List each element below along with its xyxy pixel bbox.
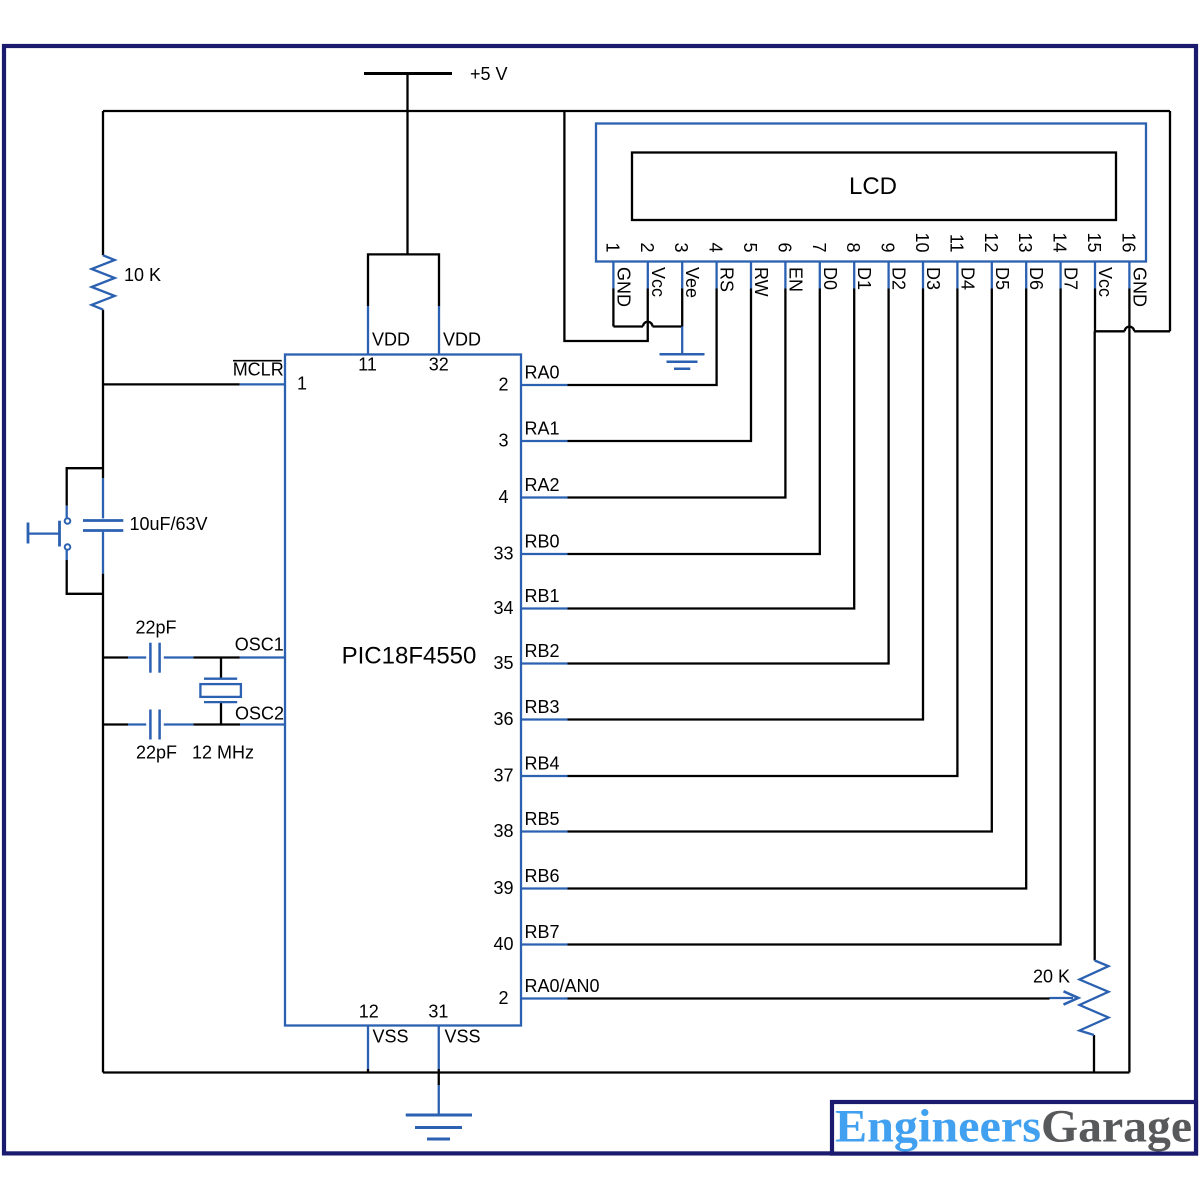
svg-text:Vee: Vee — [682, 267, 702, 298]
svg-text:PIC18F4550: PIC18F4550 — [342, 642, 477, 669]
svg-text:16: 16 — [1118, 232, 1138, 252]
svg-text:8: 8 — [843, 242, 863, 252]
svg-text:10 K: 10 K — [124, 265, 161, 285]
svg-text:22pF: 22pF — [136, 618, 177, 638]
svg-text:Vcc: Vcc — [648, 267, 668, 297]
svg-text:RA1: RA1 — [525, 419, 560, 439]
svg-text:+5 V: +5 V — [470, 64, 508, 84]
svg-text:RA0: RA0 — [525, 363, 560, 383]
svg-text:34: 34 — [493, 598, 513, 618]
svg-text:13: 13 — [1015, 232, 1035, 252]
svg-text:11: 11 — [946, 234, 966, 253]
svg-text:3: 3 — [671, 242, 691, 252]
svg-text:LCD: LCD — [849, 173, 897, 200]
svg-text:VSS: VSS — [373, 1027, 409, 1047]
svg-text:GND: GND — [613, 267, 633, 307]
svg-text:9: 9 — [878, 242, 898, 252]
svg-text:40: 40 — [493, 934, 513, 954]
svg-text:32: 32 — [429, 355, 449, 375]
svg-text:D5: D5 — [992, 267, 1012, 290]
svg-text:OSC1: OSC1 — [235, 635, 284, 655]
svg-text:12: 12 — [981, 232, 1001, 252]
svg-text:VSS: VSS — [445, 1027, 481, 1047]
svg-text:14: 14 — [1050, 232, 1070, 252]
svg-text:7: 7 — [809, 242, 829, 252]
svg-text:D6: D6 — [1026, 267, 1046, 290]
svg-text:36: 36 — [493, 709, 513, 729]
svg-text:RB4: RB4 — [525, 754, 560, 774]
svg-text:OSC2: OSC2 — [235, 703, 284, 723]
svg-text:6: 6 — [774, 242, 794, 252]
svg-text:D7: D7 — [1061, 267, 1081, 290]
svg-text:RS: RS — [717, 267, 737, 292]
svg-text:D1: D1 — [854, 267, 874, 290]
svg-text:D2: D2 — [889, 267, 909, 290]
svg-text:RW: RW — [751, 267, 771, 297]
svg-text:12 MHz: 12 MHz — [192, 743, 254, 763]
svg-text:22pF: 22pF — [136, 743, 177, 763]
svg-text:1: 1 — [297, 374, 307, 394]
svg-text:10: 10 — [912, 232, 932, 252]
svg-text:RB5: RB5 — [525, 809, 560, 829]
svg-text:4: 4 — [498, 487, 508, 507]
svg-text:VDD: VDD — [372, 330, 410, 350]
svg-text:Vcc: Vcc — [1095, 267, 1115, 297]
svg-text:RB6: RB6 — [525, 866, 560, 886]
svg-text:GND: GND — [1129, 267, 1149, 307]
svg-text:31: 31 — [428, 1002, 448, 1022]
svg-text:2: 2 — [498, 375, 508, 395]
svg-text:1: 1 — [602, 242, 622, 252]
svg-text:2: 2 — [498, 988, 508, 1008]
svg-text:11: 11 — [358, 355, 377, 375]
svg-text:Garage: Garage — [1041, 1101, 1192, 1153]
svg-text:RA0/AN0: RA0/AN0 — [525, 976, 600, 996]
svg-text:RB7: RB7 — [525, 922, 560, 942]
svg-text:D4: D4 — [957, 267, 977, 290]
svg-text:35: 35 — [493, 653, 513, 673]
svg-text:RB3: RB3 — [525, 697, 560, 717]
svg-text:RB0: RB0 — [525, 532, 560, 552]
svg-text:39: 39 — [493, 878, 513, 898]
svg-text:D0: D0 — [820, 267, 840, 290]
svg-text:15: 15 — [1084, 232, 1104, 252]
svg-text:4: 4 — [706, 242, 726, 252]
svg-text:37: 37 — [493, 766, 513, 786]
svg-text:RA2: RA2 — [525, 475, 560, 495]
svg-text:VDD: VDD — [443, 330, 481, 350]
svg-text:5: 5 — [740, 242, 760, 252]
svg-text:MCLR: MCLR — [233, 360, 284, 380]
svg-text:RB2: RB2 — [525, 641, 560, 661]
svg-text:3: 3 — [498, 431, 508, 451]
svg-text:2: 2 — [637, 242, 657, 252]
svg-text:Engineers: Engineers — [835, 1101, 1041, 1153]
svg-text:EN: EN — [785, 267, 805, 292]
svg-text:10uF/63V: 10uF/63V — [130, 514, 208, 534]
svg-text:RB1: RB1 — [525, 586, 560, 606]
svg-text:38: 38 — [493, 821, 513, 841]
svg-text:12: 12 — [359, 1002, 379, 1022]
svg-text:20 K: 20 K — [1033, 967, 1070, 987]
svg-text:D3: D3 — [923, 267, 943, 290]
svg-text:33: 33 — [493, 544, 513, 564]
